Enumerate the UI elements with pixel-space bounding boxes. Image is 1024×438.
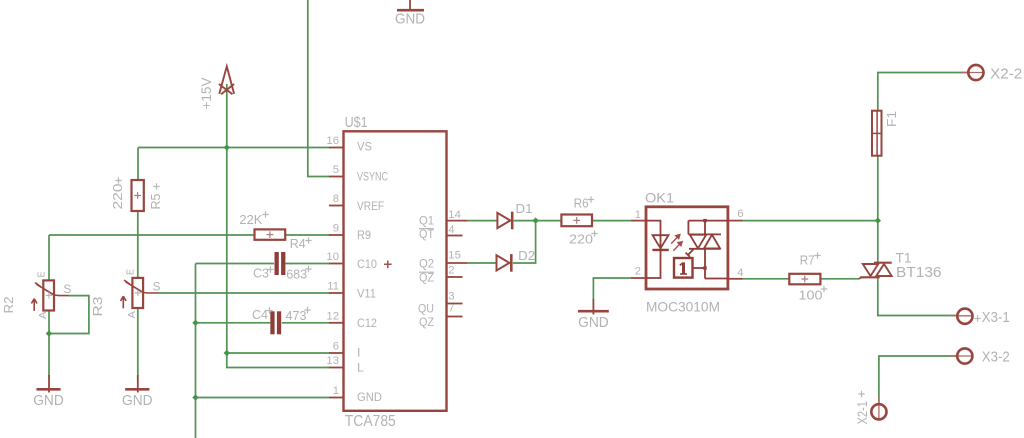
wire X3-2 to X2-1 — [879, 356, 957, 404]
pin stubs left — [329, 148, 344, 398]
svg-text:A: A — [37, 312, 49, 320]
svg-text:S: S — [152, 279, 160, 293]
svg-text:4: 4 — [737, 267, 743, 279]
wire +15V vertical down — [226, 84, 228, 353]
svg-text:1: 1 — [635, 209, 641, 221]
pad X2-1 — [878, 397, 880, 420]
svg-text:GND: GND — [395, 11, 425, 27]
wire D2 cathode up to node — [513, 221, 536, 263]
svg-text:VSYNC: VSYNC — [357, 170, 388, 184]
svg-text:R9: R9 — [357, 228, 371, 242]
wire rail corner down to R5 top — [137, 148, 139, 181]
svg-text:OK1: OK1 — [645, 190, 674, 206]
resistor R7 — [789, 274, 820, 285]
svg-text:683: 683 — [286, 267, 307, 282]
node F1/T1 junction — [875, 217, 881, 223]
wire R3 bottom to GND — [137, 308, 139, 377]
wire GND net vertical — [195, 264, 197, 438]
OK1 internal triac — [686, 221, 728, 279]
svg-text:QZ: QZ — [419, 315, 434, 329]
wire R4 to pin 9 — [285, 234, 330, 236]
wire to C3 left — [196, 263, 275, 265]
svg-text:220: 220 — [110, 184, 125, 210]
op IC U$1 TCA785 — [344, 131, 447, 411]
wire OK1 pin 4 to R7 — [743, 278, 790, 280]
wire C4 right to pin 12 C12 — [282, 322, 330, 324]
wire R9 net left segment — [49, 234, 255, 236]
optocoupler OK1 — [646, 207, 728, 289]
svg-text:C10: C10 — [357, 257, 377, 271]
wire node down to T1 MT2 — [877, 221, 879, 263]
ground OK1 — [578, 299, 609, 315]
svg-text:GND: GND — [122, 393, 153, 409]
svg-text:VREF: VREF — [357, 199, 384, 213]
overlines QT and QZ — [419, 229, 434, 273]
svg-text:X2-2: X2-2 — [990, 67, 1022, 83]
pin stubs right — [447, 221, 468, 317]
fuse F1 — [872, 111, 882, 156]
svg-text:8: 8 — [333, 193, 339, 205]
svg-text:I: I — [357, 346, 360, 360]
svg-text:2: 2 — [635, 266, 641, 278]
svg-text:3: 3 — [448, 291, 454, 303]
node R2 wiper junction — [46, 330, 52, 336]
svg-text:S: S — [63, 282, 71, 296]
svg-text:C3: C3 — [253, 266, 269, 281]
svg-text:L: L — [357, 360, 364, 374]
svg-text:D2: D2 — [518, 248, 535, 263]
OK1 pin stubs — [631, 221, 743, 279]
wire X2-2 to F1 — [878, 73, 969, 111]
svg-text:11: 11 — [327, 281, 339, 293]
svg-text:7: 7 — [448, 303, 454, 315]
svg-text:X3-1: X3-1 — [982, 310, 1010, 326]
node D1/D2 junction — [532, 217, 538, 223]
svg-text:13: 13 — [326, 355, 339, 367]
supply +15V — [219, 66, 234, 94]
svg-text:10: 10 — [326, 251, 339, 263]
node pin1/GND junction — [192, 394, 198, 400]
svg-text:9: 9 — [333, 223, 339, 235]
wire R2 wiper loop — [49, 296, 89, 334]
svg-text:R7: R7 — [800, 252, 815, 267]
pin numbers right — [448, 209, 461, 315]
svg-text:473: 473 — [286, 308, 307, 323]
wire to C4 left — [196, 322, 271, 324]
node +15V rail junction — [224, 144, 230, 150]
svg-text:12: 12 — [326, 310, 339, 322]
svg-text:16: 16 — [326, 135, 339, 147]
wire R5 bottom to R3 top — [137, 211, 139, 278]
wire to pin 6 I — [227, 352, 330, 354]
svg-text:220: 220 — [569, 231, 593, 246]
wire OK1 pin 6 to main node — [743, 220, 878, 222]
svg-text:+15V: +15V — [199, 78, 214, 110]
OK1 diac box — [674, 258, 693, 278]
resistor R6 — [561, 215, 592, 227]
svg-text:5: 5 — [333, 164, 339, 176]
diode D1 — [497, 212, 512, 230]
wire R3 wiper to pin 11 V11 — [157, 292, 330, 294]
svg-text:6: 6 — [333, 341, 339, 353]
svg-text:GND: GND — [33, 393, 64, 409]
svg-text:E: E — [124, 269, 136, 275]
svg-text:R5: R5 — [148, 194, 163, 210]
wire pin 14 to D1 anode — [468, 220, 497, 222]
svg-text:15: 15 — [448, 250, 461, 262]
svg-text:R6: R6 — [574, 196, 589, 211]
svg-text:R2: R2 — [1, 297, 16, 314]
diode D2 — [497, 254, 512, 272]
pad X2-2 — [961, 72, 984, 74]
svg-text:14: 14 — [448, 209, 461, 221]
wire T1 MT1 to X3-1 — [878, 277, 958, 315]
potentiometer R2 — [31, 280, 68, 311]
wire +15V rail to pin 16 VS — [138, 147, 330, 149]
triac T1 — [859, 263, 892, 279]
pin names — [357, 140, 388, 405]
svg-text:1: 1 — [333, 385, 339, 397]
wire R7 to T1 gate — [820, 278, 859, 280]
svg-text:U$1: U$1 — [345, 115, 368, 131]
wire R2 bottom to GND — [48, 311, 50, 378]
svg-text:C4: C4 — [252, 307, 268, 322]
svg-text:C12: C12 — [357, 316, 377, 330]
svg-text:4: 4 — [448, 224, 454, 236]
svg-text:Q2: Q2 — [419, 256, 434, 270]
wire jog to pin 13 L — [227, 353, 330, 368]
svg-text:22K: 22K — [239, 212, 262, 227]
svg-text:X2-1: X2-1 — [854, 401, 870, 425]
svg-text:F1: F1 — [884, 111, 899, 127]
resistor R4 — [255, 229, 286, 239]
svg-text:GND: GND — [357, 390, 382, 404]
ground R3 — [125, 375, 149, 393]
pin numbers left — [326, 135, 339, 397]
pin C10 plus mark — [384, 261, 392, 269]
svg-text:D1: D1 — [516, 201, 533, 216]
svg-text:6: 6 — [737, 208, 743, 220]
svg-text:V11: V11 — [357, 286, 376, 300]
wire GND net to pin 1 GND — [196, 397, 331, 399]
node I/L junction — [224, 350, 230, 356]
svg-text:T1: T1 — [896, 249, 912, 265]
pad X3-1 — [950, 315, 973, 317]
wire VSYNC net from top edge to pin 5 — [308, 0, 330, 177]
svg-text:BT136: BT136 — [896, 265, 942, 281]
svg-text:MOC3010M: MOC3010M — [646, 298, 720, 314]
svg-text:VS: VS — [357, 140, 372, 154]
svg-text:X3-2: X3-2 — [982, 349, 1010, 365]
svg-text:A: A — [126, 311, 138, 319]
svg-text:2: 2 — [448, 265, 454, 277]
OK1 internal LED — [646, 221, 669, 278]
svg-text:QU: QU — [418, 301, 434, 315]
svg-text:Q1: Q1 — [419, 214, 434, 228]
resistor R5 — [132, 180, 144, 211]
svg-text:TCA785: TCA785 — [345, 413, 396, 430]
wire C3 right to pin 10 C10 — [285, 263, 330, 265]
wire node to R6 — [592, 220, 631, 222]
wire F1 bottom to node — [877, 156, 879, 221]
wire OK1 pin 2 to GND — [593, 278, 631, 300]
potentiometer R3 — [121, 278, 158, 309]
svg-text:GND: GND — [578, 315, 609, 331]
ground R2 — [36, 375, 60, 393]
svg-text:R3: R3 — [90, 297, 105, 317]
capacitor C3 — [275, 252, 286, 275]
wire pin 15 to D2 anode — [468, 262, 496, 264]
capacitor C4 — [270, 311, 281, 334]
wire D1 cathode to node — [514, 220, 562, 222]
svg-text:R4: R4 — [290, 236, 306, 251]
svg-text:100: 100 — [799, 288, 823, 303]
svg-text:E: E — [35, 272, 47, 278]
wire R9 net down to R2 top — [48, 235, 50, 280]
OK1 light arrows — [671, 235, 682, 251]
ground top — [397, 0, 424, 10]
pad X3-2 — [950, 355, 972, 357]
node C4/GND junction — [192, 320, 198, 326]
